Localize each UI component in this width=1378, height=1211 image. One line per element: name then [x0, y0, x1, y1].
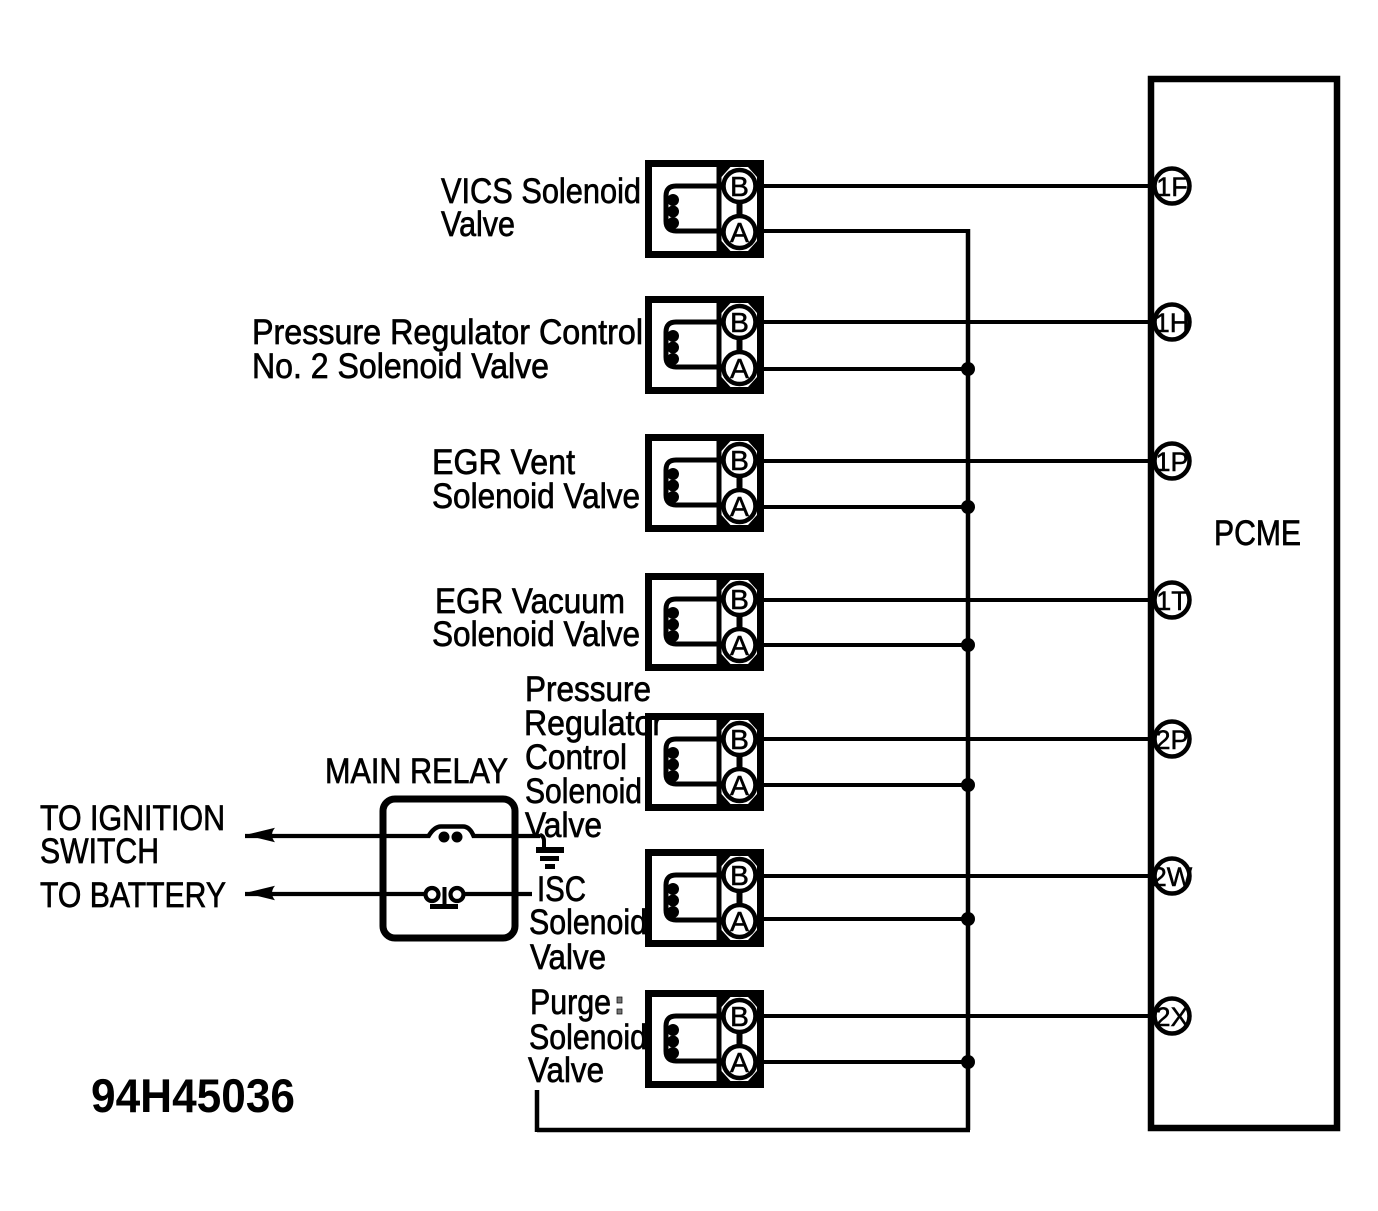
- svg-text:Solenoid Valve: Solenoid Valve: [432, 477, 640, 516]
- svg-text:Valve: Valve: [441, 205, 515, 244]
- svg-text:Valve: Valve: [525, 806, 602, 845]
- svg-text:Valve: Valve: [528, 1051, 604, 1090]
- svg-text:2X: 2X: [1155, 1002, 1188, 1032]
- svg-text:1H: 1H: [1155, 308, 1190, 338]
- svg-text:Solenoid Valve: Solenoid Valve: [432, 615, 640, 654]
- svg-text:SWITCH: SWITCH: [40, 832, 159, 871]
- svg-text:PCME: PCME: [1214, 514, 1301, 553]
- svg-text:1F: 1F: [1156, 172, 1188, 202]
- svg-text:2P: 2P: [1155, 725, 1188, 755]
- svg-text:Purge: Purge: [530, 983, 611, 1022]
- svg-text:TO BATTERY: TO BATTERY: [40, 876, 226, 915]
- svg-text:Valve: Valve: [530, 938, 606, 977]
- svg-text:Solenoid: Solenoid: [529, 903, 647, 942]
- svg-text:94H45036: 94H45036: [91, 1069, 295, 1122]
- svg-text:MAIN RELAY: MAIN RELAY: [325, 752, 508, 791]
- svg-text:No. 2 Solenoid Valve: No. 2 Solenoid Valve: [252, 347, 549, 386]
- svg-text:1T: 1T: [1156, 586, 1188, 616]
- svg-text:1P: 1P: [1155, 447, 1188, 477]
- svg-text:2W: 2W: [1152, 862, 1193, 892]
